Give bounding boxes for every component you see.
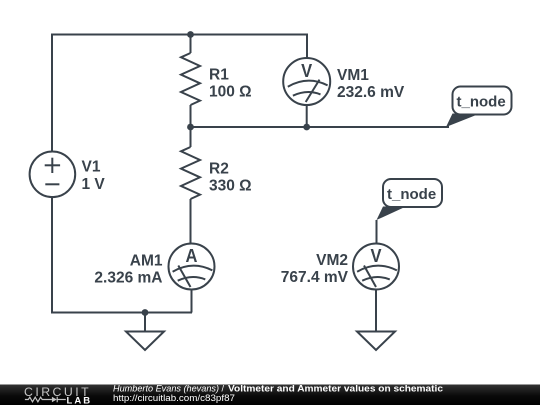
junction dot bottom ground [142, 309, 149, 316]
wire top horizontal [52, 34, 307, 36]
resistor R1 [181, 35, 200, 128]
ground right [357, 332, 395, 351]
svg-text:A: A [186, 245, 198, 266]
ammeter AM1 [169, 244, 215, 313]
svg-text:VM2: VM2 [316, 252, 348, 269]
voltmeter VM2 [353, 220, 399, 332]
resistor R2 [181, 127, 200, 244]
voltage source V1 [30, 152, 76, 198]
svg-text:100 Ω: 100 Ω [209, 84, 252, 101]
svg-text:Voltmeter and Ammeter values o: Voltmeter and Ammeter values on schemati… [228, 384, 443, 394]
svg-text:330 Ω: 330 Ω [209, 178, 252, 195]
wire mid horizontal (node t_node) [191, 126, 449, 128]
svg-text:t_node: t_node [457, 94, 506, 111]
AM1 labels [94, 253, 162, 287]
svg-text:767.4 mV: 767.4 mV [281, 269, 349, 286]
svg-text:http://circuitlab.com/c83pf87: http://circuitlab.com/c83pf87 [113, 393, 235, 403]
junction dot VM1 bottom [303, 124, 310, 131]
svg-text:232.6 mV: 232.6 mV [337, 84, 405, 101]
VM1 labels [337, 67, 405, 101]
svg-text:1 V: 1 V [82, 176, 106, 193]
svg-text:V: V [370, 245, 381, 266]
svg-text:V1: V1 [82, 158, 101, 175]
svg-text:t_node: t_node [387, 186, 436, 203]
R1 labels [209, 67, 252, 101]
logo resistor+diode glyph [25, 397, 66, 403]
svg-text:R2: R2 [209, 161, 229, 178]
VM2 labels [281, 252, 349, 286]
junction dot top R1 [187, 31, 194, 38]
ground left [126, 313, 164, 351]
svg-text:Humberto Evans (hevans): Humberto Evans (hevans) [113, 384, 219, 394]
wire bottom horizontal [52, 312, 191, 314]
svg-text:V: V [301, 60, 312, 81]
R2 labels [209, 161, 252, 195]
junction dot R1-R2 [187, 124, 194, 131]
svg-text:LAB: LAB [67, 395, 91, 405]
node flag t_node (above VM2) [377, 179, 443, 220]
node flag t_node (right) [446, 87, 512, 128]
svg-text:AM1: AM1 [130, 253, 163, 270]
wire left vertical [51, 35, 53, 152]
svg-text:R1: R1 [209, 67, 229, 84]
wire V1 bottom [51, 197, 53, 313]
svg-text:VM1: VM1 [337, 67, 369, 84]
svg-text:2.326 mA: 2.326 mA [94, 270, 162, 287]
voltmeter VM1 [283, 35, 330, 128]
V1 labels [82, 158, 106, 193]
